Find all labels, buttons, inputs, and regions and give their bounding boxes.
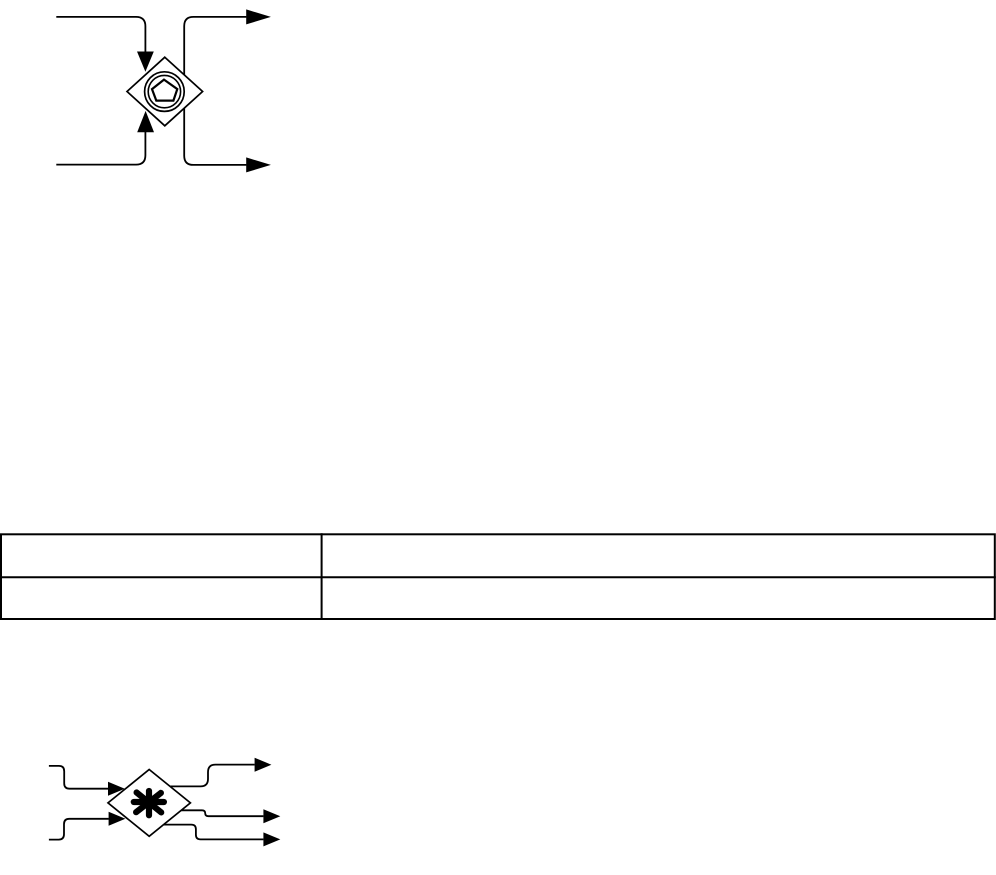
asterisk marker horizontal bar <box>134 799 164 805</box>
arrowhead: top-right output of complex gateway <box>255 758 272 772</box>
wire: lower-left incoming flow of complex gateway <box>49 819 109 840</box>
arrowhead: middle-right output of complex gateway <box>263 809 280 823</box>
table: column divider <box>321 533 323 619</box>
arrowhead: down into gateway top <box>137 52 154 72</box>
table: 2x2 empty table <box>1 534 995 619</box>
asterisk marker vertical bar <box>146 791 152 815</box>
wire: bottom-left incoming sequence flow of event gateway <box>56 132 145 165</box>
arrowhead: bottom-right output <box>246 157 271 172</box>
arrowhead: into complex gateway upper-left <box>108 782 125 796</box>
arrowhead: top-right output <box>246 9 271 24</box>
wire: top-left incoming sequence flow of event gateway <box>56 17 145 53</box>
asterisk marker diagonal bar NW-SE <box>137 793 162 813</box>
gateway: complex gateway diamond <box>108 770 190 837</box>
table: middle horizontal rule <box>0 576 996 578</box>
inner circle of event gateway <box>148 75 180 107</box>
arrowhead: into complex gateway lower-left <box>109 812 126 826</box>
gateway: event-based gateway diamond <box>127 57 203 126</box>
wire: bottom outgoing flow of complex gateway <box>164 825 264 840</box>
outer circle of event gateway <box>145 72 185 112</box>
wire: top outgoing flow of complex gateway <box>170 765 254 787</box>
pentagon marker <box>152 80 177 101</box>
wire: middle outgoing flow of complex gateway <box>181 810 263 816</box>
wire: vertical outgoing line with two right branches <box>184 17 246 165</box>
arrowhead: bottom-right output of complex gateway <box>263 832 280 846</box>
arrowhead: up into gateway bottom <box>137 111 154 132</box>
wire: upper-left incoming flow of complex gateway <box>49 766 108 789</box>
asterisk marker diagonal bar SW-NE <box>136 793 161 812</box>
